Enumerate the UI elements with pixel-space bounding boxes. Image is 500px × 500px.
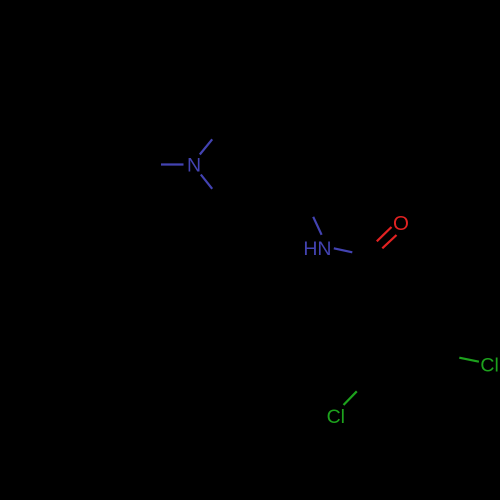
bond HN-C(=O) (N-colored half) (334, 248, 353, 252)
bond N1-C2 upper (N-colored half) (200, 139, 212, 154)
bond C-Cl right (Cl-colored half) (459, 358, 479, 362)
svg-text:N: N (187, 155, 201, 177)
bond HN-CH2 (N-colored half) (313, 217, 321, 235)
svg-text:Cl: Cl (327, 406, 345, 428)
svg-text:O: O (393, 212, 409, 235)
bond N1-CH3 (N-colored half) (161, 163, 184, 165)
svg-text:HN: HN (303, 238, 331, 260)
double bond C=O line 1 (O-colored half) (377, 227, 392, 241)
bond N1-C5 lower (N-colored half) (201, 175, 212, 189)
bond C-Cl bottom (Cl-colored half) (344, 391, 357, 405)
double bond C=O line 2 (O-colored half) (382, 235, 396, 248)
svg-text:Cl: Cl (480, 355, 498, 377)
